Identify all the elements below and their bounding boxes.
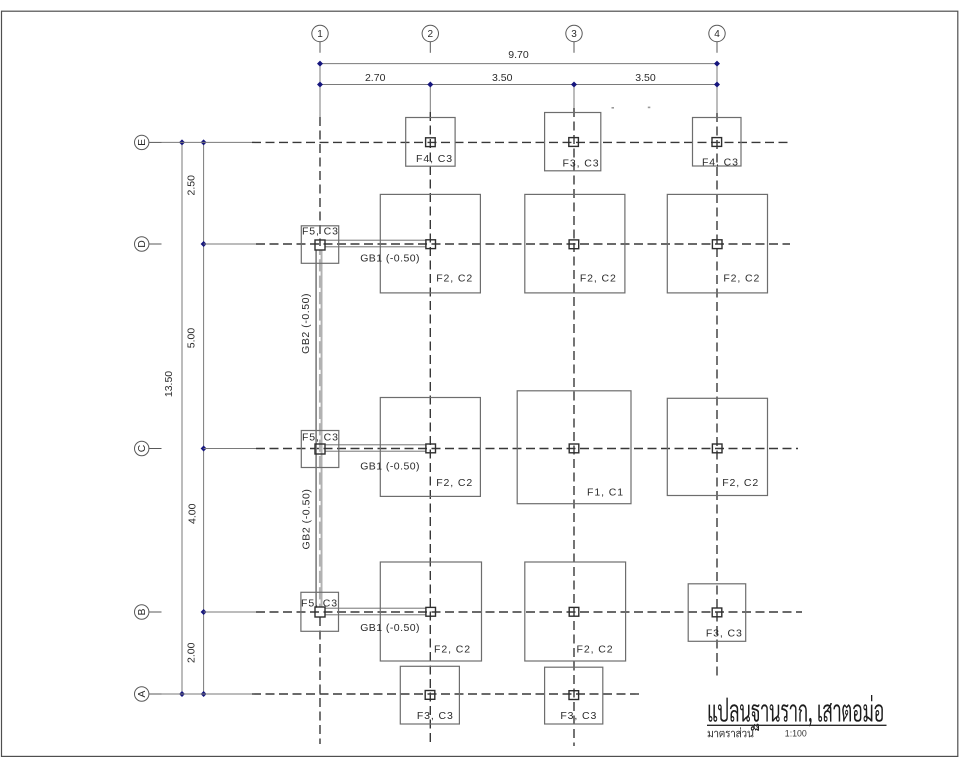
ground beam GB2 grid1	[316, 250, 322, 608]
footing F1,C1 C3	[517, 391, 631, 504]
svg-text:1: 1	[317, 29, 323, 40]
svg-text:GB1 (-0.50): GB1 (-0.50)	[360, 622, 420, 634]
svg-text:D: D	[137, 240, 148, 248]
column C2 at D4	[712, 240, 722, 249]
grid bubble 2	[422, 25, 438, 53]
grid bubble A	[135, 687, 162, 701]
svg-text:F5, C3: F5, C3	[302, 226, 339, 238]
grid line 1 dashed upper	[319, 117, 321, 246]
footing F2,C2 D3	[525, 194, 625, 293]
svg-text:B: B	[137, 608, 148, 615]
grid bubble E	[135, 135, 162, 149]
column C3 at B4	[712, 608, 722, 617]
column C2 at B3	[569, 607, 579, 616]
footing F5,C3 C1	[301, 431, 339, 468]
grid line E dashed	[162, 141, 253, 143]
column C3 at E4	[712, 138, 722, 147]
svg-text:GB2 (-0.50): GB2 (-0.50)	[300, 293, 312, 354]
grid line 1 dashed lower	[319, 617, 321, 744]
svg-text:F3, C3: F3, C3	[706, 628, 743, 640]
footing F2,C2 D4	[667, 194, 767, 293]
footing F2,C2 C4	[667, 398, 767, 495]
dimension line 13.50 overall	[181, 142, 183, 694]
ground beam GB1 row C	[325, 445, 426, 452]
column C3 at A3	[569, 691, 579, 700]
grid line 4 dashed	[716, 113, 718, 678]
footing F3,C3 E3	[545, 113, 601, 171]
svg-text:GB1 (-0.50): GB1 (-0.50)	[360, 252, 420, 264]
diamond tick	[714, 61, 720, 67]
diamond tick	[571, 82, 577, 88]
title Thai: foundation & stub-column plan	[709, 695, 883, 731]
svg-text:F5, C3: F5, C3	[301, 598, 338, 610]
grid line A dashed	[162, 693, 253, 695]
plot speck	[612, 107, 615, 109]
title underline	[707, 724, 887, 726]
column C2 at C2	[426, 444, 436, 453]
svg-text:F2, C2: F2, C2	[722, 477, 759, 489]
svg-text:F2, C2: F2, C2	[580, 273, 617, 285]
svg-text:2.00: 2.00	[186, 642, 198, 663]
ground beam GB1 row B	[325, 608, 426, 615]
diamond tick	[427, 82, 433, 88]
grid line 2 dashed	[429, 112, 431, 746]
grid bubble 1	[312, 25, 328, 53]
column C3 at B1	[315, 607, 325, 617]
svg-text:F1, C1: F1, C1	[587, 487, 624, 499]
diamond tick	[179, 139, 185, 145]
svg-text:F4, C3: F4, C3	[416, 153, 453, 165]
svg-text:3.50: 3.50	[492, 72, 513, 84]
dimension line 9.70 overall	[320, 63, 717, 65]
dimension line col 2.50/5.00/4.00/2.00	[203, 142, 205, 694]
svg-text:F2, C2: F2, C2	[723, 273, 760, 285]
grid line C dashed	[204, 448, 256, 450]
column C3 at C1	[315, 444, 325, 454]
svg-text:F3, C3: F3, C3	[563, 157, 600, 169]
grid line B dashed	[204, 611, 256, 613]
column C3 at A2	[425, 691, 435, 700]
svg-text:F2, C2: F2, C2	[436, 477, 473, 489]
extension line grid 3 top	[573, 85, 575, 109]
dimension line row 2.70/3.50/3.50	[320, 84, 717, 86]
footing F2,C2 B2	[380, 562, 481, 661]
svg-text:F2, C2: F2, C2	[436, 273, 473, 285]
svg-text:4: 4	[714, 29, 720, 40]
svg-text:GB2 (-0.50): GB2 (-0.50)	[301, 489, 313, 550]
svg-text:2: 2	[428, 29, 434, 40]
footing F4,C3 E4	[693, 118, 742, 167]
svg-text:2.70: 2.70	[365, 72, 386, 84]
footing F2,C2 D2	[380, 194, 480, 293]
svg-text:9.70: 9.70	[508, 49, 529, 61]
svg-text:2.50: 2.50	[185, 175, 197, 196]
svg-text:F3, C3: F3, C3	[417, 710, 454, 722]
footing F2,C2 C2	[380, 398, 480, 497]
footing F4,C3 E2	[406, 118, 455, 167]
svg-text:5.00: 5.00	[186, 328, 198, 349]
svg-text:1:100: 1:100	[785, 729, 807, 739]
grid bubble 3	[566, 25, 582, 53]
footing F3,C3 B4	[688, 584, 746, 642]
svg-text:3.50: 3.50	[635, 72, 656, 84]
svg-text:F2, C2: F2, C2	[434, 644, 471, 656]
grid line 3 dashed	[573, 108, 575, 746]
column C1 at C3	[569, 444, 579, 453]
label Thai: scale	[708, 727, 754, 737]
diamond tick	[201, 446, 207, 452]
svg-text:C: C	[137, 444, 148, 452]
footing F3,C3 A3	[545, 667, 603, 724]
diamond tick	[714, 82, 720, 88]
svg-text:GB1 (-0.50): GB1 (-0.50)	[360, 461, 420, 473]
plot speck	[648, 107, 651, 109]
diamond tick	[201, 139, 207, 145]
diamond tick	[317, 61, 323, 67]
extension line grid 4 top	[716, 64, 718, 113]
svg-text:F5, C3: F5, C3	[302, 431, 339, 443]
grid bubble 4	[709, 25, 725, 53]
column C3 at D1	[315, 240, 325, 250]
extension line grid 1 top	[319, 64, 321, 117]
column C2 at D3	[569, 240, 579, 249]
extension line grid 2 top	[429, 85, 431, 113]
ground beam GB1 row D	[325, 240, 426, 247]
footing F5,C3 D1	[301, 226, 338, 263]
footing F3,C3 A2	[400, 666, 459, 724]
svg-text:4.00: 4.00	[187, 503, 199, 524]
svg-text:A: A	[137, 690, 148, 697]
diamond tick	[317, 82, 323, 88]
footing F2,C2 B3	[525, 562, 626, 661]
svg-text:F3, C3: F3, C3	[560, 710, 597, 722]
diamond tick	[201, 609, 207, 615]
svg-text:F4, C3: F4, C3	[702, 157, 739, 169]
column C2 at C4	[712, 444, 722, 453]
svg-text:13.50: 13.50	[163, 371, 175, 397]
diamond tick	[201, 691, 207, 697]
grid bubble D	[135, 237, 162, 251]
column C2 at B2	[426, 607, 436, 616]
grid bubble C	[135, 441, 162, 455]
column C3 at E3	[569, 138, 579, 147]
footing F5,C3 B1	[301, 592, 339, 631]
column C2 at D2	[426, 240, 436, 249]
grid line D dashed	[204, 243, 256, 245]
svg-text:3: 3	[571, 29, 577, 40]
grid bubble B	[135, 605, 162, 619]
svg-text:E: E	[137, 139, 148, 146]
column C3 at E2	[426, 138, 436, 147]
diamond tick	[179, 691, 185, 697]
diamond tick	[201, 241, 207, 247]
svg-text:F2, C2: F2, C2	[577, 644, 614, 656]
